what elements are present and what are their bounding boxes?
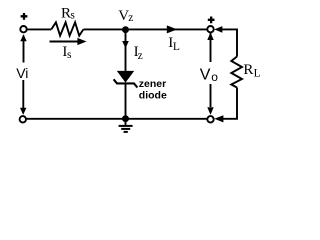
plus sign right [208,17,215,24]
zener branch lower [125,84,127,116]
svg-text:o: o [211,70,218,84]
arrowhead into bottom-right terminal [214,115,223,122]
ground bar 3 [124,131,128,133]
wire top-left to resistor [27,28,52,30]
svg-text:z: z [128,12,133,24]
svg-text:L: L [173,41,180,53]
terminal circle top-left [20,26,26,32]
ground stem [125,119,127,125]
arrowhead into top-right terminal [214,26,222,33]
svg-text:Vi: Vi [16,65,28,81]
svg-text:z: z [138,50,143,62]
arrowhead Is right [77,38,86,45]
svg-text:L: L [254,68,261,80]
zener diode triangle [117,71,134,83]
svg-text:V: V [200,66,211,83]
svg-text:diode: diode [139,90,167,102]
Vo measure line lower [210,84,212,107]
svg-text:zener: zener [139,78,166,90]
plus sign left [21,13,28,20]
wire resistor to node Vz [83,28,122,30]
ground bar 2 [121,128,130,130]
arrowhead IL right [167,25,177,33]
svg-text:s: s [70,10,75,22]
Vi measure line upper [23,36,25,63]
terminal circle bottom-right [207,116,213,122]
svg-text:s: s [67,49,72,61]
zener branch upper [125,32,127,71]
arrowhead Vi up [20,34,26,41]
node dot Vz [122,26,129,33]
Vi measure line lower [22,80,24,108]
current arrow Is line [50,41,79,43]
RL bottom feed wire [223,88,238,119]
wire node Vz to right terminal [129,28,208,30]
RL top feed wire [222,29,238,56]
Vo measure line upper [210,33,212,62]
resistor Rs zigzag [51,22,83,35]
terminal circle top-right [207,26,213,32]
svg-text:R: R [243,62,253,78]
ground bar 1 [119,125,133,127]
arrowhead Vo down [207,107,213,115]
resistor RL zigzag [231,57,242,88]
junction dot ground [122,115,129,122]
zener cathode bar with wings [114,79,138,87]
arrowhead Vi down [20,108,26,115]
bottom wire [26,118,207,120]
terminal circle bottom-left [20,116,26,122]
arrowhead Iz down [122,41,129,48]
arrowhead Vo up [207,32,213,40]
